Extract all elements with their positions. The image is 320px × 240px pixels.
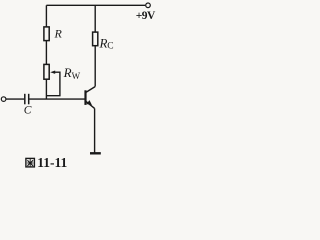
svg-text:R: R [99, 36, 108, 51]
svg-text:+9V: +9V [136, 10, 156, 22]
svg-text:C: C [107, 41, 113, 51]
svg-text:11-11: 11-11 [37, 155, 67, 170]
svg-text:W: W [72, 71, 81, 81]
svg-text:C: C [24, 105, 32, 117]
svg-text:R: R [54, 26, 63, 40]
svg-text:R: R [63, 65, 72, 80]
